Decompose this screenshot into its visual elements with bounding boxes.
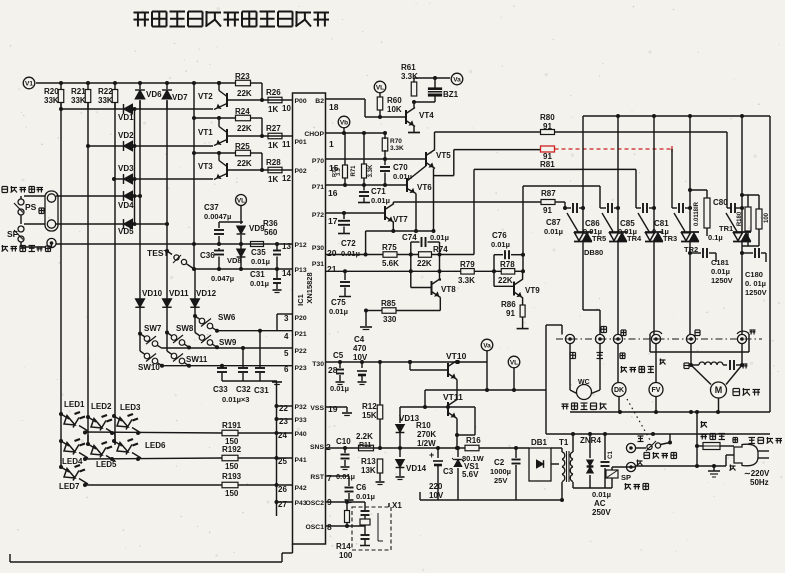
svg-text:R25: R25 [235,142,250,151]
svg-text:21: 21 [327,264,337,274]
svg-text:VT8: VT8 [441,285,456,294]
svg-text:0.047µ: 0.047µ [211,274,234,283]
svg-text:VT3: VT3 [198,162,213,171]
svg-text:R86: R86 [501,300,516,309]
svg-text:TR1: TR1 [719,224,733,233]
svg-text:3.3K: 3.3K [401,72,418,81]
svg-text:WC: WC [578,379,590,386]
svg-text:R11: R11 [359,442,372,449]
svg-text:3.3K: 3.3K [390,145,404,152]
svg-text:1K: 1K [268,105,278,114]
svg-text:5: 5 [284,349,289,358]
svg-text:R70: R70 [390,138,402,145]
svg-text:10: 10 [282,104,291,113]
svg-text:4: 4 [284,332,289,341]
svg-text:∼220V: ∼220V [744,469,770,478]
svg-text:P13: P13 [295,267,307,274]
svg-text:SW10: SW10 [138,363,160,372]
svg-text:1/2W: 1/2W [417,439,436,448]
svg-text:P70: P70 [312,158,324,165]
svg-text:R191: R191 [222,421,242,430]
svg-text:LED7: LED7 [59,482,80,491]
svg-text:LED3: LED3 [120,403,141,412]
svg-text:VL: VL [376,84,384,91]
svg-text:26: 26 [278,485,287,494]
svg-text:R85: R85 [381,299,396,308]
svg-text:TR5: TR5 [592,234,606,243]
svg-text:C33: C33 [213,385,228,394]
svg-text:Vb: Vb [340,119,348,126]
svg-text:C10: C10 [336,437,351,446]
svg-text:0.01µ: 0.01µ [341,249,360,258]
svg-text:22: 22 [279,404,288,413]
svg-text:VT7: VT7 [393,215,408,224]
svg-text:RST: RST [310,474,324,481]
svg-text:R78: R78 [500,260,515,269]
svg-text:T30: T30 [312,361,324,368]
svg-text:0.01µ: 0.01µ [329,307,348,316]
svg-text:1000µ: 1000µ [490,467,511,476]
svg-text:3: 3 [284,314,289,323]
svg-text:11: 11 [282,140,291,149]
svg-text:P22: P22 [295,348,307,355]
svg-text:P42: P42 [295,485,307,492]
svg-text:0.01µ: 0.01µ [251,257,270,266]
svg-text:13K: 13K [361,466,376,475]
svg-text:R193: R193 [222,472,242,481]
svg-text:R36: R36 [263,219,278,228]
svg-text:C4: C4 [354,335,365,344]
svg-text:C2: C2 [494,458,505,467]
svg-text:R180: R180 [737,211,743,226]
svg-text:LED5: LED5 [96,460,117,469]
svg-text:C37: C37 [204,203,219,212]
svg-text:VD2: VD2 [118,131,134,140]
svg-text:VT6: VT6 [417,183,432,192]
svg-text:AC: AC [594,499,606,508]
svg-text:SW6: SW6 [218,313,236,322]
svg-text:1250V: 1250V [745,288,767,297]
svg-text:DB1: DB1 [531,438,548,447]
svg-text:270K: 270K [417,430,436,439]
svg-text:33K: 33K [71,96,86,105]
svg-text:23: 23 [279,417,288,426]
svg-text:C72: C72 [341,239,356,248]
svg-text:VT5: VT5 [436,151,451,160]
svg-text:C36: C36 [200,251,215,260]
svg-text:R74: R74 [433,245,448,254]
svg-text:0.01µ: 0.01µ [330,384,349,393]
svg-text:13: 13 [282,242,291,251]
svg-text:R21: R21 [71,87,86,96]
svg-text:VT9: VT9 [525,286,540,295]
svg-text:5.6K: 5.6K [382,259,399,268]
svg-text:33K: 33K [98,96,113,105]
svg-text:R14: R14 [336,542,351,551]
svg-text:22K: 22K [237,159,252,168]
svg-text:0.01µ: 0.01µ [430,233,449,242]
svg-text:P41: P41 [295,457,307,464]
svg-text:C6: C6 [356,483,367,492]
svg-text:16: 16 [328,188,338,198]
svg-text:17: 17 [328,216,338,226]
svg-text:100: 100 [339,551,353,560]
svg-text:C74: C74 [402,233,417,242]
svg-text:C35: C35 [251,248,266,257]
svg-text:V1: V1 [25,80,33,87]
svg-text:VD7: VD7 [172,93,188,102]
svg-text:91: 91 [543,122,552,131]
svg-text:5.6V: 5.6V [462,470,479,479]
svg-text:0.0118lR: 0.0118lR [694,201,700,226]
svg-text:VD1: VD1 [118,113,134,122]
svg-text:R12: R12 [362,402,377,411]
svg-text:8: 8 [327,522,332,532]
svg-text:100: 100 [764,212,770,223]
svg-text:P33: P33 [295,417,307,424]
svg-text:P21: P21 [295,331,307,338]
svg-text:3.3K: 3.3K [368,164,374,177]
svg-text:1: 1 [329,139,334,149]
svg-text:P31: P31 [312,261,324,268]
svg-text:C180: C180 [745,270,763,279]
svg-text:TR3: TR3 [663,234,677,243]
svg-text:VD11: VD11 [169,289,189,298]
svg-text:P23: P23 [295,365,307,372]
svg-text:C3: C3 [443,467,454,476]
svg-text:C5: C5 [333,351,344,360]
svg-text:LED6: LED6 [145,441,166,450]
svg-text:22K: 22K [498,276,513,285]
svg-text:150: 150 [225,462,239,471]
svg-text:R24: R24 [235,107,250,116]
svg-text:BZ1: BZ1 [443,90,459,99]
svg-text:VT2: VT2 [198,92,213,101]
svg-text:250V: 250V [592,508,611,517]
svg-text:VD12: VD12 [196,289,217,298]
svg-text:6: 6 [284,365,289,374]
svg-text:C32: C32 [236,385,251,394]
svg-text:R26: R26 [266,88,281,97]
svg-text:18: 18 [329,102,339,112]
svg-text:LED2: LED2 [91,402,112,411]
svg-text:DK: DK [614,387,624,394]
svg-text:R80: R80 [540,113,555,122]
svg-text:0. 01µ: 0. 01µ [745,279,766,288]
svg-text:R60: R60 [387,96,402,105]
svg-text:P32: P32 [295,404,307,411]
svg-text:M: M [715,385,723,395]
svg-text:C31: C31 [250,270,265,279]
svg-text:VT4: VT4 [419,111,434,120]
svg-text:R61: R61 [401,63,416,72]
svg-text:150: 150 [225,489,239,498]
svg-text:VD4: VD4 [118,201,134,210]
svg-text:C76: C76 [492,231,507,240]
svg-text:1K: 1K [268,141,278,150]
svg-text:R192: R192 [222,445,242,454]
svg-text:P72: P72 [312,212,324,219]
svg-text:OSC1: OSC1 [305,524,324,531]
svg-text:15K: 15K [362,411,377,420]
svg-text:R87: R87 [541,189,556,198]
svg-text:SF: SF [7,229,18,239]
svg-text:10K: 10K [387,105,402,114]
svg-text:X1: X1 [392,501,402,510]
svg-text:220: 220 [429,482,443,491]
svg-text:B2: B2 [315,98,324,105]
svg-text:0.01µ×3: 0.01µ×3 [222,395,249,404]
svg-text:0.01µ: 0.01µ [544,227,563,236]
svg-text:Va: Va [453,76,461,83]
svg-text:C70: C70 [393,163,408,172]
svg-text:R75: R75 [382,243,397,252]
svg-text:22K: 22K [237,89,252,98]
svg-text:3.3: 3.3 [336,168,342,176]
svg-text:C181: C181 [711,258,729,267]
svg-text:R81: R81 [540,160,555,169]
svg-text:P71: P71 [312,184,324,191]
svg-text:R28: R28 [266,158,281,167]
svg-text:C87: C87 [546,218,561,227]
svg-text:33K: 33K [44,96,59,105]
svg-text:2: 2 [326,442,331,452]
svg-text:P02: P02 [295,168,307,175]
svg-text:27: 27 [278,500,287,509]
svg-text:VT10: VT10 [446,351,467,361]
svg-text:10V: 10V [353,353,368,362]
svg-text:C71: C71 [371,187,386,196]
svg-text:0.01µ: 0.01µ [356,492,375,501]
svg-text:C31: C31 [254,386,269,395]
svg-text:FV: FV [652,387,661,394]
svg-text:P40: P40 [295,431,307,438]
svg-text:24: 24 [278,431,287,440]
svg-text:0.0047µ: 0.0047µ [204,212,231,221]
svg-text:OSC2: OSC2 [305,500,324,507]
svg-text:12: 12 [282,174,291,183]
svg-text:VD5: VD5 [118,227,134,236]
svg-text:2.2K: 2.2K [356,432,373,441]
svg-text:330: 330 [383,315,397,324]
svg-text:VT1: VT1 [198,128,213,137]
svg-text:CHOP: CHOP [304,131,324,138]
svg-text:R20: R20 [44,87,59,96]
svg-text:SW8: SW8 [176,324,194,333]
svg-text:LED1: LED1 [64,400,85,409]
svg-text:22K: 22K [417,259,432,268]
svg-text:VL: VL [510,359,518,366]
svg-text:P00: P00 [295,98,307,105]
svg-text:VSS: VSS [310,405,324,412]
svg-text:10V: 10V [429,491,444,500]
svg-text:+: + [429,450,434,460]
svg-text:R79: R79 [460,260,475,269]
svg-text:25: 25 [278,457,287,466]
svg-text:SW7: SW7 [144,324,162,333]
svg-text:IC1: IC1 [296,294,305,306]
svg-text:50Hz: 50Hz [750,478,769,487]
svg-text:0.1µ: 0.1µ [708,233,723,242]
svg-text:VD6: VD6 [146,90,162,99]
svg-text:P20: P20 [295,315,307,322]
svg-text:C75: C75 [331,298,346,307]
svg-text:25V: 25V [494,476,507,485]
svg-text:XN15828: XN15828 [305,272,314,303]
svg-text:P30: P30 [312,245,324,252]
svg-text:SW11: SW11 [186,355,208,364]
svg-text:VD8: VD8 [227,256,242,265]
svg-text:560: 560 [264,228,278,237]
svg-text:P01: P01 [295,139,307,146]
svg-text:R10: R10 [416,421,431,430]
svg-text:20: 20 [327,248,337,258]
svg-text:C1: C1 [608,451,614,459]
svg-text:SNS: SNS [310,444,324,451]
svg-text:91: 91 [543,206,552,215]
svg-text:470: 470 [353,344,367,353]
svg-text:R71: R71 [351,165,357,177]
svg-text:DB80: DB80 [584,248,603,257]
svg-text:0.01µ: 0.01µ [250,279,269,288]
svg-text:R27: R27 [266,124,281,133]
svg-text:R22: R22 [98,87,113,96]
svg-text:Va: Va [483,342,491,349]
svg-text:R13: R13 [361,457,376,466]
svg-text:PS: PS [25,202,37,212]
svg-text:22K: 22K [237,124,252,133]
svg-text:VT11: VT11 [443,392,463,402]
svg-text:7: 7 [327,473,332,483]
svg-text:14: 14 [282,269,291,278]
svg-text:VL: VL [237,197,245,204]
svg-text:91: 91 [506,309,515,318]
svg-text:C80: C80 [713,198,728,207]
svg-text:1250V: 1250V [711,276,733,285]
svg-text:P12: P12 [295,242,307,249]
svg-text:VD14: VD14 [406,464,427,473]
svg-text:3.3K: 3.3K [458,276,475,285]
svg-text:T1: T1 [559,438,569,447]
svg-text:R16: R16 [466,436,481,445]
svg-text:0.01µ: 0.01µ [371,196,390,205]
svg-text:SW9: SW9 [219,338,237,347]
svg-text:TR4: TR4 [627,234,642,243]
svg-text:VD10: VD10 [142,289,163,298]
svg-text:R23: R23 [235,72,250,81]
svg-text:19: 19 [328,404,338,414]
svg-text:0.01µ: 0.01µ [491,240,510,249]
svg-text:0.01µ: 0.01µ [711,267,730,276]
svg-text:1K: 1K [268,175,278,184]
svg-text:VD3: VD3 [118,164,134,173]
svg-text:0.01µ: 0.01µ [592,490,611,499]
svg-text:SP: SP [621,473,631,482]
